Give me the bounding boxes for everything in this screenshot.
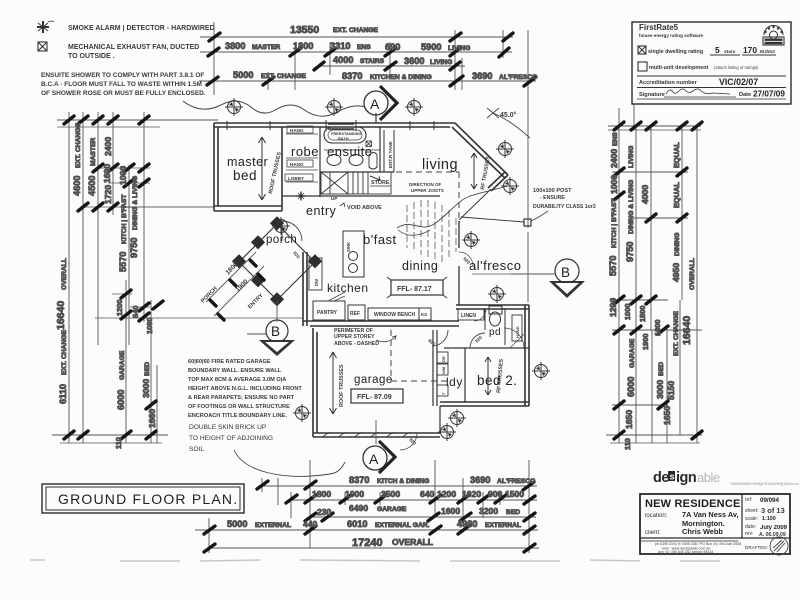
- svg-text:ENT.R TANK: ENT.R TANK: [388, 140, 393, 168]
- smoke alarm star in entry: [297, 192, 306, 201]
- svg-text:4000: 4000: [333, 55, 353, 65]
- bottom-left leader curve: [234, 450, 345, 476]
- right mid connectors: [612, 172, 702, 405]
- window bench: [368, 308, 419, 320]
- svg-text:EXT. CHANGE: EXT. CHANGE: [61, 330, 68, 375]
- svg-text:5570: 5570: [608, 256, 618, 276]
- svg-text:09/094: 09/094: [760, 497, 779, 504]
- pd/linen north wall: [456, 305, 529, 309]
- pd divider: [485, 309, 505, 345]
- svg-text:OVERALL: OVERALL: [689, 258, 696, 290]
- bed2 west wall: [464, 348, 466, 402]
- top dim line 2 (master/ens/living): [200, 51, 512, 53]
- svg-text:EXT. CHANGE: EXT. CHANGE: [261, 73, 306, 80]
- svg-text:FirstRate5: FirstRate5: [639, 23, 679, 32]
- svg-text:location:: location:: [645, 513, 668, 519]
- svg-text:SINK: SINK: [346, 242, 351, 252]
- svg-text:3310: 3310: [330, 41, 350, 51]
- svg-text:s: s: [670, 472, 675, 482]
- svg-text:1500: 1500: [505, 489, 524, 499]
- bed2 south wall: [440, 402, 529, 406]
- garage door hatch: [322, 432, 410, 437]
- freestanding bath: [324, 127, 366, 143]
- hall south wall: [282, 195, 440, 197]
- kitchen west wall: [303, 252, 307, 326]
- svg-text:acn: 67 456 845 342 signe: acn: 67 456 845 342 signed 98434: [658, 550, 713, 554]
- right dim verticals: [619, 104, 697, 443]
- exhaust fan symbol: [38, 42, 47, 51]
- top dim line 1 (13550 ext change): [200, 36, 513, 38]
- svg-text:1660: 1660: [147, 409, 157, 428]
- svg-text:KS: KS: [421, 312, 427, 317]
- svg-text:KITCH | B'FAST: KITCH | B'FAST: [611, 198, 618, 248]
- svg-text:5: 5: [715, 45, 720, 55]
- svg-text:OVERALL: OVERALL: [392, 537, 433, 547]
- exhaust fan ensuite: [366, 141, 372, 147]
- svg-text:ABOVE - DASHED: ABOVE - DASHED: [334, 341, 379, 347]
- svg-text:230: 230: [317, 507, 332, 517]
- svg-text:MASTER: MASTER: [90, 138, 97, 166]
- svg-text:DW: DW: [314, 279, 319, 286]
- svg-text:A: A: [369, 451, 379, 467]
- svg-text:WINDOW BENCH: WINDOW BENCH: [374, 312, 415, 318]
- robe shelf rows: [285, 126, 318, 182]
- alfresco-B leader: [472, 273, 511, 275]
- svg-text:1650: 1650: [624, 410, 634, 429]
- svg-text:BOUNDARY WALL. ENSURE WALL: BOUNDARY WALL. ENSURE WALL: [188, 368, 282, 374]
- porch piers: [233, 217, 322, 306]
- svg-text:SOIL: SOIL: [189, 446, 204, 453]
- svg-text:LIVING: LIVING: [448, 45, 470, 52]
- master bed west wall: [214, 123, 218, 211]
- svg-text:5150: 5150: [666, 381, 676, 400]
- svg-text:ref:: ref:: [745, 497, 752, 503]
- svg-text:EQUAL: EQUAL: [672, 182, 681, 208]
- porch diamond: [234, 224, 315, 300]
- svg-text:6110: 6110: [58, 384, 68, 404]
- svg-text:DIRECTION OF: DIRECTION OF: [409, 182, 442, 187]
- svg-text:& REAR PARAPETS; ENSURE NO PAR: & REAR PARAPETS; ENSURE NO PART: [188, 395, 295, 401]
- bed2 east wall: [525, 305, 529, 406]
- svg-text:EXT. CHANGE: EXT. CHANGE: [333, 27, 378, 34]
- svg-text:date:: date:: [745, 524, 756, 530]
- svg-text:LIVING: LIVING: [628, 146, 635, 168]
- svg-text:1800: 1800: [312, 489, 331, 499]
- multi-unit checkbox: [638, 62, 647, 71]
- alfresco west wall: [458, 221, 460, 305]
- svg-text:4980: 4980: [457, 519, 477, 529]
- tank strip: [384, 130, 394, 172]
- svg-text:7A Van Ness Av,: 7A Van Ness Av,: [682, 510, 739, 519]
- svg-text:5900: 5900: [421, 42, 441, 52]
- svg-text:1200: 1200: [115, 300, 124, 316]
- window breaks top wall: [120, 120, 434, 207]
- svg-text:master: master: [227, 155, 268, 169]
- svg-text:DR: DR: [441, 356, 446, 362]
- bottom strip: [640, 540, 738, 542]
- svg-text:9750: 9750: [625, 242, 635, 262]
- svg-text:GROUND FLOOR PLAN.: GROUND FLOOR PLAN.: [58, 491, 238, 507]
- svg-text:GARAGE: GARAGE: [119, 350, 126, 380]
- right bottom connector: [606, 434, 702, 436]
- svg-text:4600: 4600: [72, 176, 82, 196]
- linen: [458, 309, 484, 320]
- svg-text:EXT. CHANGE: EXT. CHANGE: [75, 123, 82, 168]
- house energy logo: [763, 26, 784, 46]
- svg-text:robe: robe: [291, 144, 319, 159]
- svg-text:1000: 1000: [345, 489, 364, 499]
- svg-text:porch: porch: [266, 234, 297, 246]
- svg-text:60|60|60 FIRE RATED GARAGE: 60|60|60 FIRE RATED GARAGE: [188, 359, 271, 365]
- svg-text:3600: 3600: [404, 56, 424, 66]
- garage/ldy divider: [433, 330, 437, 406]
- svg-text:garage: garage: [354, 374, 393, 386]
- stairs: [321, 172, 391, 194]
- svg-text:VOID ABOVE: VOID ABOVE: [347, 205, 382, 211]
- svg-text:AL'FRESCO: AL'FRESCO: [499, 74, 537, 81]
- svg-text:100x100 POST: 100x100 POST: [533, 188, 572, 194]
- svg-text:1650: 1650: [662, 406, 672, 425]
- dining wavy curve: [397, 186, 508, 228]
- svg-text:de: de: [653, 470, 669, 486]
- svg-text:bed 2.: bed 2.: [477, 373, 518, 388]
- svg-text:4500: 4500: [87, 176, 97, 196]
- svg-text:GARAGE: GARAGE: [377, 506, 407, 513]
- svg-text:TOP MAX 8CM & AVERAGE 3.0M O|A: TOP MAX 8CM & AVERAGE 3.0M O|A: [188, 377, 286, 383]
- svg-text:640: 640: [420, 489, 435, 499]
- svg-text:scale:: scale:: [745, 516, 758, 522]
- svg-text:1690: 1690: [102, 164, 112, 183]
- svg-text:LINEN: LINEN: [461, 313, 476, 319]
- svg-text:BED: BED: [506, 509, 520, 516]
- svg-text:single dwelling rating: single dwelling rating: [648, 49, 703, 55]
- svg-text:1600: 1600: [441, 506, 460, 516]
- extension verticals: [214, 22, 528, 95]
- svg-text:16640: 16640: [55, 301, 67, 330]
- bottom dim line 3 (garage/bed): [310, 516, 536, 518]
- door swings: [282, 221, 524, 450]
- alfresco post line: [527, 95, 529, 302]
- svg-text:MJ/m2: MJ/m2: [760, 49, 775, 55]
- svg-text:Date: Date: [739, 92, 751, 98]
- ensuite east wall: [379, 127, 381, 172]
- svg-text:EXTERNAL GAR.: EXTERNAL GAR.: [375, 522, 430, 529]
- svg-text:b'fast: b'fast: [363, 232, 397, 247]
- title block box: [640, 494, 790, 554]
- top dim line 4 (ext change / kitchen dining / alfresco): [199, 80, 536, 82]
- svg-text:5000: 5000: [233, 70, 253, 80]
- svg-text:Signature: Signature: [639, 92, 665, 98]
- svg-text:ENCROACH TITLE BOUNDARY LINE.: ENCROACH TITLE BOUNDARY LINE.: [188, 413, 287, 419]
- svg-text:OVERALL: OVERALL: [61, 258, 68, 290]
- bed2 north wall: [444, 347, 529, 349]
- left dim verticals: [69, 112, 157, 443]
- svg-text:REF: REF: [350, 311, 360, 317]
- svg-text:3800: 3800: [225, 41, 245, 51]
- svg-text:6000: 6000: [116, 390, 126, 410]
- svg-text:EXTERNAL: EXTERNAL: [485, 522, 521, 529]
- svg-text:PANTRY: PANTRY: [317, 310, 338, 316]
- drafted stamp: [770, 537, 788, 555]
- alfresco post: [524, 219, 531, 226]
- svg-text:July 2009: July 2009: [760, 525, 788, 531]
- svg-text:13550: 13550: [290, 24, 319, 36]
- svg-text:1720: 1720: [103, 185, 113, 204]
- upper storey dashed perimeter: [391, 172, 459, 381]
- svg-text:TO HEIGHT OF ADJOINING: TO HEIGHT OF ADJOINING: [189, 435, 273, 442]
- svg-text:B: B: [271, 324, 281, 339]
- section marker A top: [364, 86, 397, 120]
- svg-text:HEIGHT ABOVE N.G.L. INCLUDING: HEIGHT ABOVE N.G.L. INCLUDING FRONT: [188, 386, 302, 392]
- svg-text:110: 110: [114, 437, 123, 449]
- pd toilet: [489, 306, 502, 326]
- svg-text:6490: 6490: [349, 503, 368, 513]
- left mid connectors: [80, 168, 303, 318]
- svg-text:WM: WM: [441, 366, 446, 374]
- smoke alarm symbol: [37, 21, 54, 33]
- svg-text:1000: 1000: [609, 175, 619, 194]
- svg-text:UP: UP: [331, 196, 337, 201]
- extension verticals: [209, 460, 529, 553]
- svg-text:B.C.A - FLOOR MUST FALL TO WAS: B.C.A - FLOOR MUST FALL TO WASTE WITHIN …: [41, 81, 202, 88]
- svg-text:DRAFTED:: DRAFTED:: [745, 545, 768, 550]
- FFL dining box: [391, 280, 443, 295]
- svg-text:KITCH & DINING: KITCH & DINING: [377, 478, 429, 485]
- wavy leader from legend: [183, 101, 365, 116]
- svg-text:440: 440: [303, 519, 318, 529]
- svg-text:OF FOOTINGS OR WALL STRUCTURE: OF FOOTINGS OR WALL STRUCTURE: [188, 404, 290, 410]
- bed2 hang: [512, 315, 522, 341]
- ldy fixtures: [437, 352, 448, 396]
- svg-text:TO OUTSIDE .: TO OUTSIDE .: [68, 53, 115, 60]
- section marker B left: [247, 300, 295, 356]
- svg-text:A: A: [370, 96, 380, 112]
- svg-text:ROOF TRUSSES: ROOF TRUSSES: [339, 364, 345, 407]
- svg-text:110: 110: [623, 438, 632, 450]
- svg-text:HANG: HANG: [290, 128, 304, 133]
- svg-text:DURABILITY CLASS 1or2: DURABILITY CLASS 1or2: [533, 204, 596, 210]
- svg-text:27/07/09: 27/07/09: [753, 90, 785, 99]
- svg-text:client:: client:: [645, 530, 661, 536]
- svg-text:NEW RESIDENCE: NEW RESIDENCE: [645, 498, 741, 510]
- ref: [348, 305, 365, 320]
- svg-text:FFL- 87.17: FFL- 87.17: [397, 286, 432, 293]
- svg-text:MASTER: MASTER: [252, 44, 280, 51]
- svg-text:GARAGE: GARAGE: [629, 338, 636, 368]
- section marker A bottom: [363, 420, 395, 473]
- svg-text:STAIRS: STAIRS: [360, 58, 385, 65]
- svg-text:able: able: [697, 470, 720, 485]
- svg-text:1080: 1080: [145, 318, 154, 334]
- svg-text:OF SHOWER ROSE OR MUST BE FULL: OF SHOWER ROSE OR MUST BE FULLY ENCLOSED…: [41, 90, 206, 97]
- svg-text:DINING: DINING: [674, 233, 681, 256]
- svg-text:dining: dining: [402, 259, 438, 273]
- robe/ensuite divider: [319, 127, 321, 197]
- svg-text:1020: 1020: [462, 489, 481, 499]
- svg-text:DINING & LIVING: DINING & LIVING: [132, 176, 139, 230]
- svg-text:EXT. CHANGE: EXT. CHANGE: [673, 311, 680, 356]
- kitchen island bench: [343, 231, 364, 277]
- svg-text:BATH: BATH: [338, 136, 349, 141]
- svg-text:LIVING: LIVING: [430, 59, 452, 66]
- ensuite basins: [324, 150, 380, 169]
- svg-text:LOBBY: LOBBY: [288, 176, 304, 181]
- svg-text:ENS: ENS: [357, 44, 371, 51]
- svg-text:17240: 17240: [352, 537, 383, 549]
- svg-text:UPPER JOISTS: UPPER JOISTS: [411, 188, 444, 193]
- stairs top wall: [320, 113, 394, 172]
- ground floor plan title box: [42, 484, 244, 513]
- svg-text:1:100: 1:100: [762, 516, 776, 522]
- garage west wall: [313, 328, 317, 437]
- svg-text:1200: 1200: [608, 298, 618, 317]
- svg-text:AL'FRESCO: AL'FRESCO: [497, 478, 535, 485]
- svg-text:EXTERNAL: EXTERNAL: [255, 522, 291, 529]
- svg-text:2400: 2400: [103, 137, 113, 156]
- svg-text:4950: 4950: [671, 263, 681, 282]
- svg-text:multi-unit development: multi-unit development: [649, 65, 709, 71]
- svg-text:stars: stars: [724, 49, 736, 55]
- FirstRate5 box: [632, 22, 791, 104]
- svg-text:5000: 5000: [227, 519, 247, 529]
- right top connector: [608, 125, 701, 127]
- svg-text:(attach listing of ratings): (attach listing of ratings): [714, 65, 759, 70]
- svg-text:ENSUITE SHOWER TO COMPLY WITH: ENSUITE SHOWER TO COMPLY WITH PART 3.8.1…: [41, 72, 204, 79]
- left dim bottom connector: [52, 434, 168, 436]
- svg-text:ph 0395 3191 fx 0395 3367 PO: ph 0395 3191 fx 0395 3367 PO Box vic, Mc…: [655, 542, 741, 546]
- accreditation row: [637, 75, 786, 77]
- svg-text:rev:: rev:: [745, 531, 753, 537]
- ldy step wall: [439, 406, 441, 433]
- svg-text:16640: 16640: [681, 316, 693, 345]
- svg-text:KITCH | B'FAST: KITCH | B'FAST: [121, 194, 128, 244]
- NE diagonal wall: [452, 123, 508, 178]
- porch diagonal dims: [206, 252, 264, 320]
- svg-text:al'fresco: al'fresco: [469, 258, 522, 273]
- svg-text:bed: bed: [233, 168, 257, 183]
- svg-text:VIC/02/07: VIC/02/07: [719, 77, 758, 87]
- svg-text:6010: 6010: [347, 519, 367, 529]
- master bed south wall: [214, 206, 282, 211]
- svg-text:1800: 1800: [293, 41, 313, 51]
- svg-text:STORE: STORE: [371, 180, 390, 186]
- svg-text:BED: BED: [658, 362, 665, 376]
- single dwelling checkbox: [638, 46, 646, 54]
- scanner noise bottom: [30, 560, 720, 561]
- pantry: [313, 301, 345, 320]
- svg-text:1800: 1800: [653, 320, 662, 336]
- svg-text:KITCHEN & DINING: KITCHEN & DINING: [370, 74, 432, 81]
- svg-text:8370: 8370: [349, 475, 369, 485]
- tick blobs: [204, 481, 535, 552]
- svg-text:5570: 5570: [118, 252, 128, 272]
- svg-text:1000: 1000: [623, 304, 632, 320]
- tick blobs row1: [207, 33, 536, 86]
- alfresco beam to post: [459, 189, 524, 222]
- svg-text:Chris Webb: Chris Webb: [682, 527, 723, 536]
- svg-text:EQUAL: EQUAL: [672, 142, 681, 168]
- bfast window curve: [398, 230, 430, 235]
- svg-text:900: 900: [488, 489, 503, 499]
- svg-text:MECHANICAL EXHAUST FAN, DUCTED: MECHANICAL EXHAUST FAN, DUCTED: [68, 44, 199, 51]
- bottom dim line 4 (external): [195, 529, 538, 531]
- garage south wall: [313, 433, 440, 437]
- left dim top connector: [57, 119, 218, 121]
- kitchen/garage dividing wall: [303, 321, 459, 326]
- svg-text:540: 540: [131, 306, 140, 318]
- joist hatch lines: [407, 200, 456, 262]
- svg-text:SMOKE ALARM | DETECTOR - HARDW: SMOKE ALARM | DETECTOR - HARDWIRED: [68, 25, 215, 32]
- svg-text:BED: BED: [144, 362, 151, 376]
- svg-text:DINING & LIVING: DINING & LIVING: [628, 180, 635, 234]
- svg-text:living: living: [422, 157, 458, 173]
- kitchen bench: [309, 258, 322, 290]
- circled cross symbols: [225, 98, 550, 441]
- svg-text:pd: pd: [489, 327, 501, 338]
- svg-text:4000: 4000: [640, 185, 650, 204]
- svg-text:ensuite: ensuite: [327, 144, 372, 159]
- svg-text:1200: 1200: [437, 489, 456, 499]
- svg-text:ign: ign: [676, 470, 696, 486]
- svg-text:3690: 3690: [472, 71, 492, 81]
- svg-text:B: B: [561, 265, 571, 280]
- svg-text:ENS: ENS: [612, 132, 619, 146]
- top dim line 3 (stairs/living): [318, 65, 465, 67]
- svg-text:690: 690: [385, 42, 400, 52]
- bottom dim line 2 (small dims): [291, 499, 537, 501]
- svg-text:2400: 2400: [609, 149, 619, 168]
- svg-text:entry: entry: [306, 204, 337, 218]
- living SE diagonal wall: [488, 172, 508, 191]
- svg-text:1500: 1500: [638, 306, 647, 322]
- bottom dim line 5 (17240 overall): [208, 547, 539, 549]
- svg-text:ldy: ldy: [446, 375, 463, 389]
- svg-text:3500: 3500: [381, 489, 400, 499]
- svg-text:3200: 3200: [479, 506, 498, 516]
- svg-text:1900: 1900: [641, 334, 650, 350]
- signature row: [637, 87, 786, 89]
- tick blobs: [614, 122, 702, 439]
- svg-text:FFL- 87.09: FFL- 87.09: [357, 394, 392, 401]
- svg-text:8370: 8370: [342, 71, 362, 81]
- svg-text:3690: 3690: [470, 475, 490, 485]
- svg-text:house energy rating software: house energy rating software: [639, 33, 704, 38]
- svg-text:3000: 3000: [655, 380, 665, 399]
- svg-text:kitchen: kitchen: [327, 281, 369, 295]
- roof truss arrows: [259, 137, 492, 414]
- bottom dim line 1 (8370 / 3690): [262, 485, 537, 487]
- svg-text:1000: 1000: [118, 166, 128, 185]
- svg-text:- ENSURE: - ENSURE: [540, 195, 565, 201]
- robe west wall: [281, 127, 283, 211]
- FFL garage box: [351, 389, 403, 403]
- svg-text:3000: 3000: [141, 379, 151, 398]
- top exterior wall: [214, 123, 455, 127]
- svg-text:3 of 13: 3 of 13: [761, 506, 785, 515]
- tick blobs: [64, 116, 163, 439]
- svg-text:Accreditation number: Accreditation number: [639, 80, 698, 86]
- svg-text:DOUBLE SKIN BRICK UP: DOUBLE SKIN BRICK UP: [189, 424, 267, 431]
- svg-text:6000: 6000: [626, 377, 636, 397]
- svg-text:UPPER STOREY: UPPER STOREY: [334, 334, 375, 340]
- svg-text:sheet:: sheet:: [745, 508, 759, 514]
- svg-text:9750: 9750: [129, 238, 139, 258]
- svg-text:construction design & planning: construction design & planning solutions: [731, 482, 799, 486]
- svg-text:170: 170: [743, 45, 757, 55]
- svg-text:HANG: HANG: [290, 162, 304, 167]
- section marker B right: [511, 259, 585, 298]
